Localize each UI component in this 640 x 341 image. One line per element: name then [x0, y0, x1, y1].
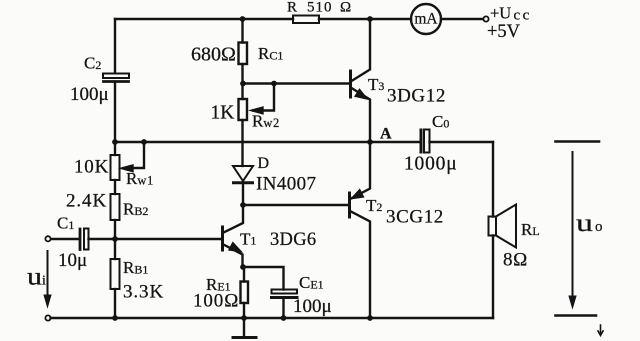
- potentiometer Rw2 (1K): [239, 84, 275, 121]
- capacitor C2: [103, 74, 129, 143]
- svg-text:C0: C0: [432, 112, 449, 131]
- node T1 collector / T2 base / diode: [240, 202, 246, 208]
- svg-text:3DG12: 3DG12: [387, 86, 446, 107]
- node bottom rail T2 collector: [367, 315, 373, 321]
- wire left rail to Rw1: [114, 142, 116, 155]
- wire node-A line: [115, 141, 420, 143]
- wire RB2 to RB1: [114, 220, 116, 259]
- transistor T1 base bar: [221, 227, 224, 250]
- terminal +Ucc: [483, 16, 488, 21]
- capacitor CE1: [272, 290, 298, 319]
- wire T1 base: [115, 238, 221, 240]
- resistor RB1 (3.3K): [111, 259, 120, 289]
- transistor T1 emitter with arrow: [224, 243, 243, 267]
- wire right side down to speaker: [492, 142, 494, 217]
- node A junction: [367, 139, 373, 145]
- node T3 base junction left: [240, 81, 246, 87]
- svg-text:1K: 1K: [211, 103, 235, 124]
- uo indicator top bar: [556, 140, 600, 143]
- wire T3 base line: [243, 82, 350, 84]
- svg-text:C2: C2: [84, 54, 101, 73]
- svg-text:Rw2: Rw2: [252, 112, 280, 131]
- wire top rail left: [115, 18, 293, 20]
- wire speaker to bottom rail: [492, 236, 494, 319]
- svg-text:D: D: [258, 155, 270, 172]
- svg-text:100μ: 100μ: [70, 84, 109, 105]
- node T1 emitter: [240, 264, 246, 270]
- terminal input bottom: [45, 315, 50, 320]
- resistor RC1 (680): [239, 43, 248, 65]
- svg-text:10μ: 10μ: [58, 250, 87, 271]
- wire emitter node to RE1: [243, 267, 245, 282]
- resistor RB2 (2.4K): [111, 194, 120, 220]
- wire emitter node to CE1: [243, 267, 284, 290]
- wire T1 collector: [224, 205, 244, 233]
- transistor T3 base bar: [349, 71, 352, 97]
- svg-text:100Ω: 100Ω: [193, 291, 239, 312]
- arrow ui direction: [44, 251, 51, 307]
- wire RB1 to bottom rail: [114, 289, 116, 318]
- transistor T2 collector: [351, 212, 370, 319]
- svg-text:510: 510: [307, 0, 333, 16]
- svg-text:RB2: RB2: [123, 200, 148, 219]
- wire Rw1 to RB2: [114, 180, 116, 194]
- svg-text:2.4K: 2.4K: [66, 191, 107, 212]
- svg-text:R: R: [287, 0, 297, 16]
- svg-text:Ω: Ω: [340, 0, 351, 16]
- ground: [233, 318, 256, 338]
- node bottom rail left: [112, 315, 118, 321]
- svg-text:CE1: CE1: [299, 273, 324, 292]
- wire RC1 to Rw2: [241, 64, 243, 99]
- potentiometer Rw1 (10K): [111, 142, 145, 180]
- svg-text:RL: RL: [521, 220, 540, 239]
- resistor R (510 ohm) horizontal box: [293, 16, 319, 24]
- wire input to C1: [51, 238, 79, 240]
- node top rail 680 junction: [240, 16, 246, 22]
- capacitor C0: [421, 130, 493, 153]
- node T3 base junction wiper: [271, 81, 277, 87]
- svg-text:IN4007: IN4007: [256, 174, 316, 195]
- node bottom rail CE1: [281, 315, 287, 321]
- terminal input top: [45, 236, 50, 241]
- wire T2 base line: [243, 204, 349, 206]
- svg-text:mA: mA: [414, 11, 438, 28]
- svg-text:o: o: [595, 219, 603, 235]
- capacitor C1: [80, 229, 115, 250]
- wire RE1 to bottom rail: [243, 303, 245, 318]
- transistor T2 base bar: [348, 193, 351, 217]
- wire left rail upper: [114, 19, 116, 73]
- wire top rail middle: [319, 18, 411, 20]
- svg-text:100μ: 100μ: [293, 296, 332, 317]
- svg-text:i: i: [42, 274, 46, 289]
- node C1 to rail: [112, 236, 118, 242]
- svg-text:8Ω: 8Ω: [503, 250, 528, 271]
- svg-text:RC1: RC1: [258, 44, 283, 63]
- resistor RE1 (100 ohm): [241, 282, 249, 304]
- transistor T2 emitter with arrow (PNP): [351, 142, 370, 199]
- svg-text:3DG6: 3DG6: [270, 230, 316, 250]
- wire bottom rail: [51, 317, 494, 319]
- speaker RL: [489, 205, 517, 248]
- mark bottom right: [598, 325, 603, 336]
- wire meter to supply terminal: [441, 18, 483, 20]
- wire Rw2 to diode: [241, 120, 243, 166]
- node Rw1 wiper top: [141, 139, 147, 145]
- transistor T3 emitter with arrow: [352, 88, 371, 142]
- svg-text:C1: C1: [57, 214, 74, 233]
- transistor T3 collector: [352, 19, 371, 81]
- svg-text:T3: T3: [368, 75, 384, 94]
- svg-text:A: A: [380, 126, 392, 143]
- svg-text:u: u: [27, 264, 43, 291]
- wire 680 top drop: [241, 19, 243, 43]
- svg-text:u: u: [576, 210, 594, 237]
- uo indicator bottom bar: [556, 314, 597, 317]
- node left rail A-line: [112, 139, 118, 145]
- svg-text:680Ω: 680Ω: [191, 44, 236, 66]
- node bottom rail RE1: [241, 315, 247, 321]
- diode D (IN4007): [233, 166, 253, 205]
- svg-text:3.3K: 3.3K: [123, 282, 164, 303]
- milliammeter mA: [411, 4, 441, 34]
- svg-text:T2: T2: [366, 196, 382, 215]
- svg-text:3CG12: 3CG12: [386, 207, 444, 228]
- arrow uo direction: [569, 152, 576, 308]
- svg-text:Rw1: Rw1: [126, 169, 154, 188]
- node top rail T3 collector junction: [367, 16, 373, 22]
- svg-text:1000μ: 1000μ: [404, 154, 457, 175]
- svg-text:RB1: RB1: [123, 258, 148, 277]
- svg-text:10K: 10K: [74, 157, 109, 178]
- svg-text:+U: +U: [490, 4, 511, 23]
- svg-text:T1: T1: [240, 230, 256, 249]
- svg-text:+5V: +5V: [487, 22, 521, 42]
